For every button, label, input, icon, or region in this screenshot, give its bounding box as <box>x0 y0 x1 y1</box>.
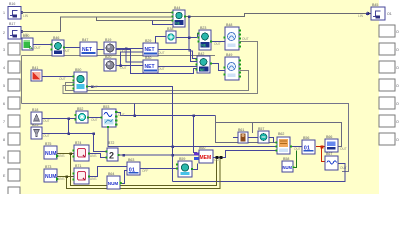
svg-text:B45: B45 <box>372 3 378 7</box>
svg-text:B56: B56 <box>303 136 309 140</box>
generator B40 <box>22 38 33 50</box>
wire: B73 to B71 <box>57 176 74 178</box>
svg-text:2: 2 <box>3 31 5 35</box>
svg-text:ANS: ANS <box>90 177 97 181</box>
arrowhead comp2 output <box>21 30 25 34</box>
svg-text:B58: B58 <box>283 157 289 161</box>
logic block B23 <box>198 30 213 50</box>
svg-text:NE: NE <box>200 68 206 72</box>
svg-text:OFF: OFF <box>142 169 148 173</box>
block B61 <box>238 132 248 143</box>
arrowhead into B45 <box>368 12 372 16</box>
svg-text:ANS: ANS <box>90 154 97 158</box>
olive wire: B73 junction loop to MEM bus drop 2 <box>67 158 221 189</box>
logic block B42 <box>196 56 213 73</box>
svg-text:LIN: LIN <box>23 14 29 18</box>
junction node at B38 output <box>188 36 191 39</box>
svg-text:OUT: OUT <box>120 49 127 53</box>
wire: B58 output green riser to bus <box>294 151 297 168</box>
block B62 <box>276 137 293 154</box>
left terminal box 3 <box>8 43 20 55</box>
junction node at B72 riser <box>92 132 95 135</box>
wire: rail y146 from B53 drop to B62 <box>108 127 277 147</box>
wire: B23 output to meter B48 <box>211 41 225 43</box>
constant B75 <box>44 146 59 159</box>
left terminal box 9 <box>8 151 20 163</box>
sensor B18 <box>31 112 42 124</box>
svg-text:OUT: OUT <box>340 147 347 151</box>
junction node 1 on MEM bus <box>216 156 219 159</box>
wire: B75 to B74 <box>57 153 74 155</box>
wire: B71 output up to B63 <box>88 167 127 177</box>
svg-text:B71: B71 <box>75 164 81 168</box>
wire: B61 to B57 <box>248 137 258 139</box>
svg-text:OUT: OUT <box>63 49 70 53</box>
arrowhead comp1 output <box>21 11 25 15</box>
schematic canvas <box>20 0 379 194</box>
junction node on B19 wire <box>125 47 128 50</box>
junction node on B50 output <box>91 85 94 88</box>
block B38 <box>166 31 176 43</box>
gray return wire from meter B54 to block B50 <box>66 71 249 91</box>
wire: B44 output branch down to B38 output node and B23 <box>176 17 199 38</box>
wire: B19 to B29 <box>116 48 143 50</box>
memory B60 <box>194 150 213 163</box>
wire: B44 output long run to B45 <box>185 14 370 17</box>
wire: B57 to B62 <box>269 138 274 143</box>
wire: B64 output to B63 <box>120 171 127 184</box>
svg-text:B41: B41 <box>32 66 38 70</box>
output scope B45 <box>371 7 385 20</box>
wire: B40 to B46 <box>33 44 52 46</box>
junction node at bus link <box>133 114 136 117</box>
olive wire: B75 junction loop to MEM bus drop 1 <box>71 154 217 186</box>
right terminal box 1 <box>379 25 395 37</box>
wire: cross links between sensor rows <box>121 49 144 66</box>
right terminal box 4 <box>379 79 395 91</box>
svg-text:9: 9 <box>3 156 5 160</box>
display block B63 <box>127 162 140 175</box>
junction node at B72 output pin <box>123 154 126 157</box>
svg-text:5: 5 <box>3 84 5 88</box>
svg-text:B18: B18 <box>32 108 38 112</box>
junction node on B25 wire <box>67 132 70 135</box>
svg-text:NUM: NUM <box>45 174 56 180</box>
svg-text:B44: B44 <box>174 6 180 10</box>
svg-text:OUT: OUT <box>43 134 50 138</box>
svg-text:O1: O1 <box>387 12 392 16</box>
wire: B63 output to B59 <box>140 168 178 170</box>
svg-text:ANS: ANS <box>58 177 65 181</box>
svg-text:NET: NET <box>145 47 155 53</box>
svg-text:4: 4 <box>3 66 5 70</box>
junction node on rail y146 <box>171 145 174 148</box>
wire tag labels <box>23 14 364 181</box>
left terminal box 7 <box>8 115 20 127</box>
left terminal box 8 <box>8 133 20 145</box>
block B72 <box>106 148 120 161</box>
wire: link from gray bus down to B53 rail <box>134 104 136 116</box>
block B59 <box>176 161 193 177</box>
block B52 <box>75 111 90 123</box>
svg-text:B25: B25 <box>32 123 38 127</box>
svg-text:B46: B46 <box>53 36 59 40</box>
svg-text:B16: B16 <box>9 2 15 6</box>
svg-text:B20: B20 <box>105 55 111 59</box>
wire: B62 output to B56 <box>291 146 302 148</box>
svg-text:B52: B52 <box>77 107 83 111</box>
svg-text:1: 1 <box>3 11 5 15</box>
svg-text:B53: B53 <box>103 105 109 109</box>
svg-text:2: 2 <box>109 151 114 161</box>
svg-text:OUT: OUT <box>91 118 98 122</box>
wire: B74 output to B72 <box>88 154 107 158</box>
wire: B47 output down to B42 lower input <box>97 50 197 74</box>
svg-text:LIN: LIN <box>23 33 29 37</box>
svg-text:3: 3 <box>3 48 5 52</box>
constant B64 <box>107 176 123 189</box>
comparator B74 <box>73 145 91 161</box>
source B41 <box>31 70 42 81</box>
wire: node riser to B42 upper input <box>189 38 197 59</box>
logic block B44 <box>172 10 187 27</box>
wire: B67 output loop west long run <box>173 164 346 182</box>
constant B58 <box>282 161 295 172</box>
svg-text:ANS: ANS <box>58 154 65 158</box>
sensor B25 <box>31 127 42 139</box>
svg-text:B29: B29 <box>145 39 151 43</box>
svg-text:B60: B60 <box>199 146 205 150</box>
svg-text:OUT: OUT <box>294 147 301 151</box>
left terminal box 11 <box>8 187 20 199</box>
meter B48 <box>224 27 242 50</box>
svg-text:B23: B23 <box>200 26 206 30</box>
wire: rail from corner down to B62 <box>216 116 278 143</box>
wire: B53 output rail to lower cluster <box>116 113 216 116</box>
svg-text:NUM: NUM <box>45 151 56 157</box>
wire: input 2 long run to block B45 <box>21 17 173 32</box>
svg-text:NET: NET <box>145 64 155 70</box>
junction node on B75 wire <box>70 153 73 156</box>
wire: B38 input riser <box>156 37 167 44</box>
meter B54 <box>224 57 242 80</box>
wire: branch down to MEM B60 <box>194 116 198 153</box>
svg-text:B17: B17 <box>9 22 15 26</box>
svg-text:NE: NE <box>201 44 207 48</box>
left terminal box 10 <box>8 169 20 181</box>
junction node near B45 input <box>366 13 369 16</box>
svg-text:B75: B75 <box>45 142 51 146</box>
sensor B19 <box>104 42 116 54</box>
designator labels <box>9 2 378 176</box>
block B67 <box>325 156 338 170</box>
svg-text:OUT: OUT <box>118 113 125 117</box>
wire: B61 input stub <box>233 137 238 139</box>
wire: B20 to B30 <box>116 65 143 67</box>
junction node on B73 wire <box>66 176 69 179</box>
svg-text:B49: B49 <box>226 53 232 57</box>
svg-text:B63: B63 <box>128 158 134 162</box>
block B29 <box>143 43 158 56</box>
svg-text:OUT: OUT <box>214 158 221 162</box>
left terminal box 6 <box>8 97 20 109</box>
wire: B42 output to meter B54 <box>210 64 225 71</box>
junction node on B44 output <box>188 15 191 17</box>
left terminal box 5 <box>8 79 20 91</box>
svg-text:B50: B50 <box>75 68 81 72</box>
wire: B18 output to B52 <box>42 118 76 120</box>
svg-text:6: 6 <box>3 102 5 106</box>
svg-text:OUT: OUT <box>242 37 249 41</box>
left terminal box 4 <box>8 61 20 73</box>
svg-text:B30: B30 <box>145 56 151 60</box>
junction node on B53 rail <box>193 115 196 118</box>
junction node 2 on MEM bus <box>220 156 223 159</box>
long gray net: bottom bus from frame to lower-right cluster <box>22 104 349 172</box>
svg-text:B47: B47 <box>82 38 88 42</box>
svg-text:B19: B19 <box>105 38 111 42</box>
gray return wire from meter B48 to block B50 <box>63 42 258 94</box>
wire: B50 output down to B72 row <box>87 87 173 182</box>
constant B73 <box>44 169 59 182</box>
junction node on red net <box>321 146 324 149</box>
svg-text:LIN: LIN <box>358 14 364 18</box>
svg-text:OUT: OUT <box>120 66 127 70</box>
wire: MEM B60 output bus east to B62 <box>213 151 277 158</box>
right terminal box 2 <box>379 43 395 55</box>
comparator B71 <box>73 168 91 184</box>
block B53 <box>101 109 118 128</box>
svg-text:OUT: OUT <box>43 119 50 123</box>
svg-text:OUT: OUT <box>34 46 41 50</box>
junction node on B20 wire <box>119 64 122 67</box>
svg-text:NUM: NUM <box>108 181 119 186</box>
svg-text:B61: B61 <box>238 128 244 132</box>
junction node on B18 wire <box>67 117 70 120</box>
block B50 <box>73 72 89 92</box>
wire: B59 output to MEM B60 <box>193 164 198 170</box>
svg-text:B67: B67 <box>326 152 332 156</box>
right terminal box 7 <box>379 133 395 145</box>
block B66 <box>325 139 338 152</box>
svg-text:7: 7 <box>3 120 5 124</box>
svg-text:OUT: OUT <box>158 67 165 71</box>
svg-text:B42: B42 <box>198 52 204 56</box>
red net between B56 B66 B67 <box>316 147 325 162</box>
svg-text:B62: B62 <box>278 132 284 136</box>
svg-text:OUT: OUT <box>340 166 347 170</box>
wire: B30 output to B42 <box>158 66 197 68</box>
junction node on B72 output <box>171 154 174 157</box>
wire: junction drop B18 to B25 rail <box>68 119 70 134</box>
svg-text:OUT: OUT <box>214 42 221 46</box>
block B47 <box>80 42 97 56</box>
svg-text:B72: B72 <box>108 141 114 145</box>
frame F1 (gray structure outline, left region) <box>22 56 216 104</box>
svg-text:B73: B73 <box>45 165 51 169</box>
svg-text:MEM: MEM <box>200 155 212 161</box>
block B57 <box>258 131 269 143</box>
svg-text:B74: B74 <box>75 141 81 145</box>
wire: B52 to B53 <box>88 117 102 119</box>
svg-text:OUT: OUT <box>158 51 165 55</box>
wire: B29 output to B42 <box>158 50 197 62</box>
input source B16 <box>8 7 21 20</box>
right terminal box 5 <box>379 97 395 109</box>
svg-text:NUM: NUM <box>283 165 293 170</box>
input source B17 <box>8 27 21 40</box>
right terminal box 6 <box>379 115 395 127</box>
svg-text:B59: B59 <box>179 157 185 161</box>
svg-text:OUT: OUT <box>59 77 66 81</box>
wire: B44 feedback loop <box>153 21 174 25</box>
block B30 <box>143 60 158 73</box>
wire: input 1 to block B44 <box>21 12 173 14</box>
wire: B72 output to MEM B60 <box>118 154 196 156</box>
wire: B46 to B47 <box>64 47 80 49</box>
display block B56 <box>302 140 315 154</box>
block B46 <box>51 40 66 56</box>
svg-text:B57: B57 <box>258 127 264 131</box>
wire: B25 output east then down to B72 <box>42 134 107 152</box>
svg-text:8: 8 <box>3 138 5 142</box>
svg-text:B38: B38 <box>167 27 173 31</box>
olive nets <box>57 154 220 189</box>
wire: branch of input2 to B44 third pin <box>97 17 174 21</box>
right terminal box 3 <box>379 61 395 73</box>
svg-text:B64: B64 <box>108 172 114 176</box>
sensor B20 <box>104 59 116 71</box>
svg-text:B66: B66 <box>326 135 332 139</box>
svg-text:OUT: OUT <box>91 85 98 89</box>
svg-text:NE: NE <box>175 21 180 25</box>
wire: B41 output to B50 <box>42 76 74 78</box>
wire: B66 output loop up west and down to MEM bus <box>216 123 342 147</box>
svg-text:B48: B48 <box>226 23 232 27</box>
